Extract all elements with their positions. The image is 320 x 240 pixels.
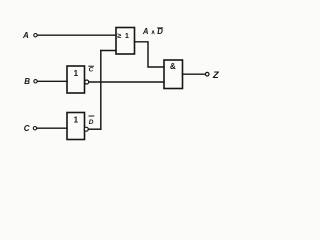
AND gate U4 — [164, 60, 183, 89]
wire B to inverter U2 input — [37, 80, 67, 82]
svg-text:∧: ∧ — [151, 30, 155, 36]
wire D-bar to vertical riser — [88, 128, 100, 130]
svg-text:B: B — [24, 77, 30, 86]
svg-text:&: & — [170, 62, 176, 71]
wire C to inverter U3 input — [37, 127, 67, 129]
terminal C — [33, 127, 36, 130]
svg-text:D: D — [157, 27, 163, 36]
svg-text:A: A — [142, 27, 149, 36]
node Z — [212, 70, 220, 81]
node C — [24, 124, 30, 133]
wire vertical riser D-bar up to OR gate input 2 — [100, 51, 102, 130]
overline of D-bar — [89, 115, 94, 117]
node B — [24, 77, 30, 86]
svg-text:1: 1 — [74, 116, 79, 125]
wire OR gate output to AND gate input 1 — [135, 42, 165, 67]
inverter U2 (B input, output C-bar) — [67, 66, 85, 93]
node A — [22, 31, 29, 40]
terminal A — [34, 34, 37, 37]
svg-text:A: A — [22, 31, 29, 40]
wire AND gate output to terminal Z — [183, 73, 206, 75]
terminal B — [34, 80, 37, 83]
net label D-bar — [89, 119, 94, 126]
svg-text:1: 1 — [74, 69, 79, 78]
inverter U2 output bubble — [85, 80, 89, 84]
inverter U3 output bubble — [84, 127, 88, 131]
inverter U3 (C input, output D-bar) — [67, 113, 85, 140]
svg-text:Z: Z — [212, 70, 220, 81]
terminal Z — [205, 72, 209, 76]
svg-text:C: C — [89, 67, 94, 74]
overline of C-bar — [89, 65, 94, 67]
svg-text:1: 1 — [125, 31, 129, 40]
wire C-bar to AND gate input 2 — [89, 81, 164, 83]
wire A to OR gate input 1 — [37, 34, 116, 36]
overline of D in A AND NOT-D — [158, 27, 163, 29]
net label C-bar — [89, 67, 94, 74]
svg-text:≥: ≥ — [117, 31, 121, 40]
OR gate U1 — [116, 28, 135, 55]
wire riser to OR gate input 2 — [101, 50, 116, 52]
net label A AND NOT-D — [142, 27, 163, 36]
svg-text:D: D — [89, 119, 94, 126]
svg-text:C: C — [24, 124, 30, 133]
